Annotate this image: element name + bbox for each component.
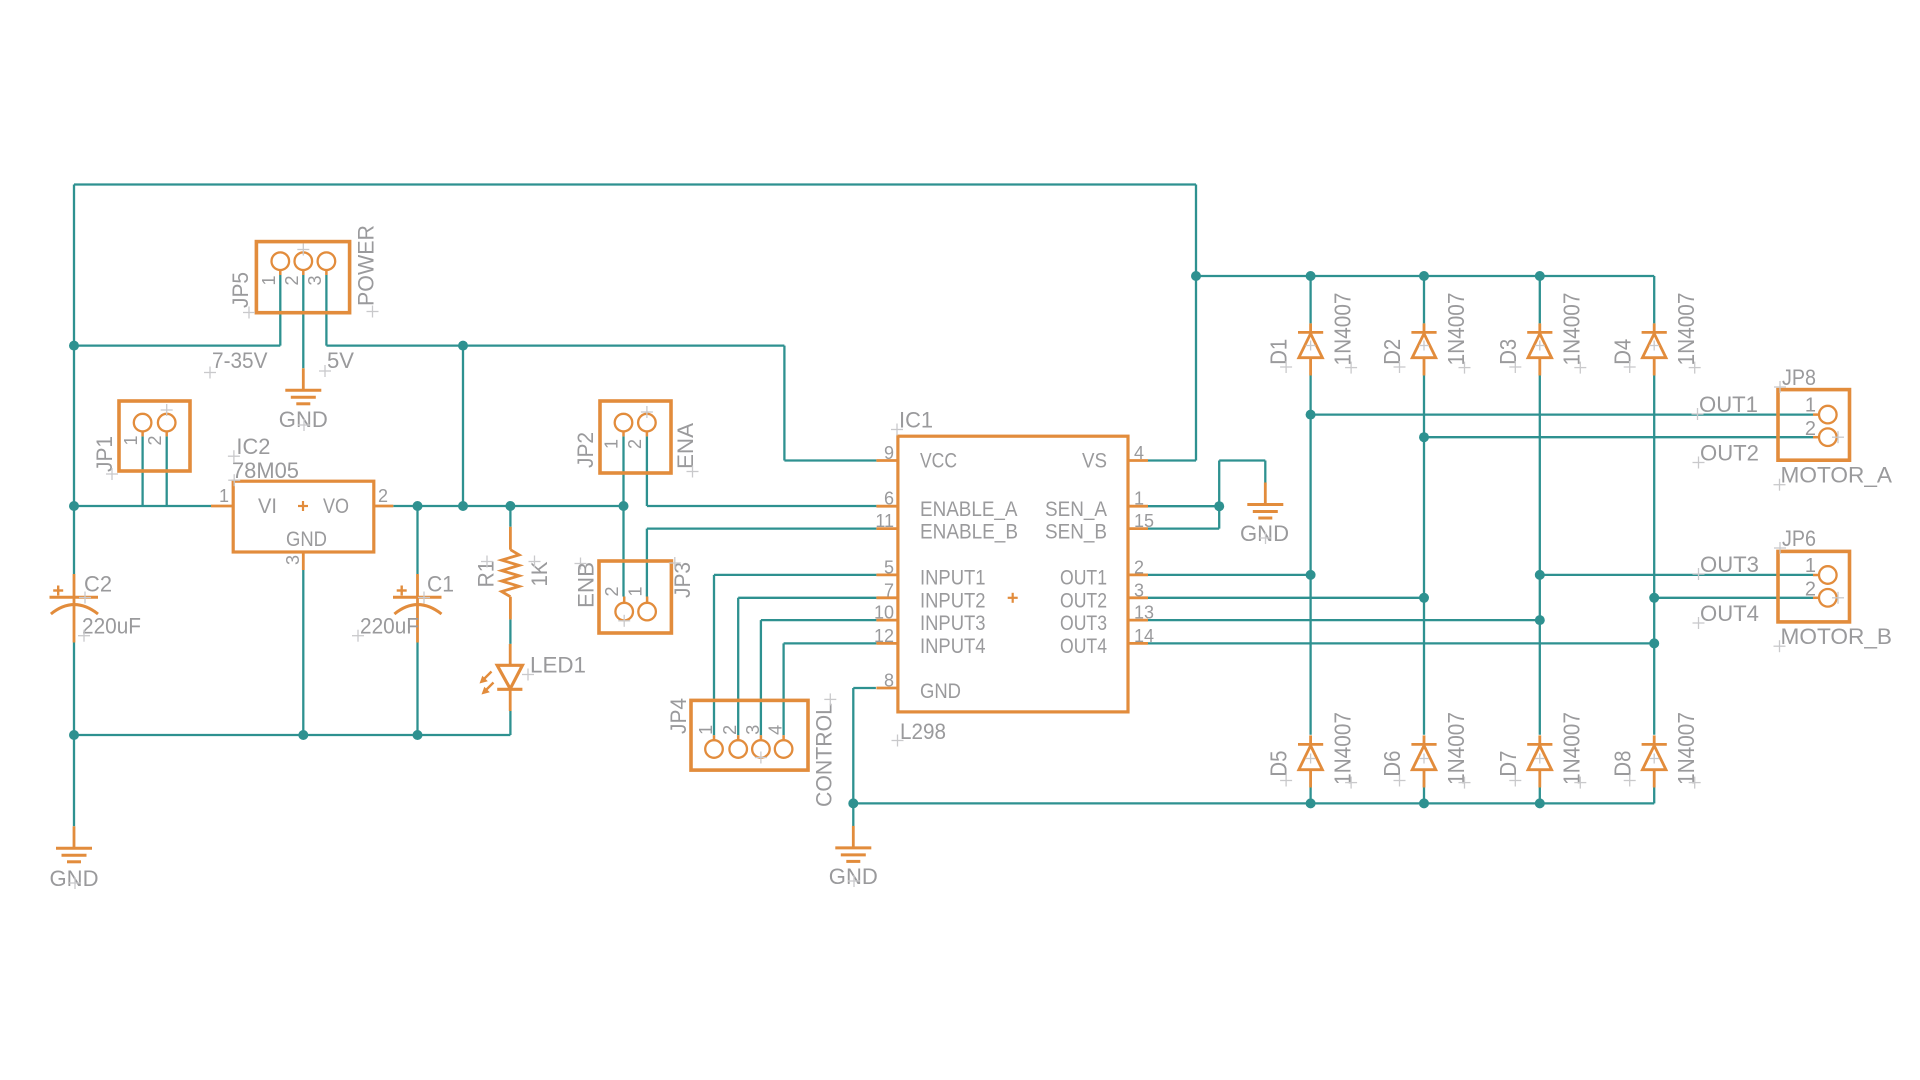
svg-text:1N4007: 1N4007 <box>1443 712 1469 785</box>
capacitor C2 <box>50 574 99 643</box>
IC2 pin 1 stub <box>211 505 233 508</box>
wire D8 riser bottom <box>1653 780 1655 803</box>
1K cross <box>529 556 541 568</box>
svg-text:1: 1 <box>1805 395 1816 417</box>
wire VCC drop <box>783 346 785 461</box>
svg-text:15: 15 <box>1134 511 1154 531</box>
wire JP4 pin2 rise <box>737 598 739 735</box>
svg-text:1: 1 <box>1134 489 1144 509</box>
svg-text:12: 12 <box>874 626 894 646</box>
svg-text:10: 10 <box>874 603 894 623</box>
label OUT2 <box>1700 441 1759 466</box>
svg-text:1: 1 <box>259 275 279 285</box>
svg-text:GND: GND <box>286 528 327 551</box>
wire SEN top row <box>1219 459 1265 461</box>
label ENB <box>574 562 599 608</box>
IC2 pin 2 stub <box>374 505 394 508</box>
1N4007 D4 cross <box>1689 362 1701 374</box>
wire OUT1 wire to JP8 <box>1311 413 1813 415</box>
IC2 pin number 1 <box>219 486 229 506</box>
label POWER <box>354 225 379 306</box>
D3 triangle cross <box>1535 341 1545 351</box>
wire VIN row to JP5 pin1 <box>74 344 280 346</box>
svg-text:C1: C1 <box>427 572 454 597</box>
diode D3 <box>1527 323 1552 375</box>
svg-text:GND: GND <box>1240 521 1289 546</box>
label D4 <box>1609 339 1635 365</box>
wire GND bottom bus <box>74 734 510 736</box>
D6 triangle cross <box>1419 754 1429 764</box>
GND control cross <box>848 875 860 887</box>
IC1 pin name INPUT1 <box>920 567 986 590</box>
diode D7 <box>1527 735 1552 787</box>
wire SEN GND drop <box>1264 461 1266 483</box>
wire JP1 pin2 drop <box>166 436 168 506</box>
D7 label cross <box>1509 775 1521 787</box>
diode D5 <box>1298 735 1323 787</box>
svg-text:8: 8 <box>884 671 894 691</box>
label D2 <box>1379 339 1405 365</box>
JP5 text cross <box>243 307 255 319</box>
wire OUT2 row from IC1 <box>1148 597 1424 599</box>
svg-text:OUT3: OUT3 <box>1700 552 1759 577</box>
svg-text:1N4007: 1N4007 <box>1443 293 1469 366</box>
svg-text:5: 5 <box>884 557 894 577</box>
svg-text:OUT4: OUT4 <box>1700 601 1759 626</box>
wire 5V row <box>326 344 784 346</box>
svg-text:1N4007: 1N4007 <box>1330 293 1356 366</box>
junction bottom bus / D6 <box>1419 798 1429 808</box>
D6 label cross <box>1394 775 1406 787</box>
junction bottom bus / IC2 GND <box>298 730 308 740</box>
svg-text:ENABLE_A: ENABLE_A <box>920 498 1018 521</box>
IC U1 L298 body <box>898 436 1128 712</box>
wire OUT1 row from IC1 <box>1148 574 1311 576</box>
GND sense cross <box>1260 532 1272 544</box>
IC1 pin name GND <box>920 680 961 703</box>
connector JP2 <box>600 401 671 473</box>
IC2 pin 3 stub <box>302 552 305 570</box>
svg-text:220uF: 220uF <box>360 614 419 639</box>
diode D1 <box>1298 323 1323 375</box>
svg-text:2: 2 <box>602 586 622 596</box>
OUT2 cross <box>1693 457 1705 469</box>
junction D1 riser / OUT1 <box>1306 410 1316 420</box>
wire D2 riser top <box>1423 276 1425 323</box>
diode D4 <box>1642 323 1667 375</box>
label L298 <box>900 719 946 744</box>
JP6 origin cross <box>1832 592 1844 604</box>
svg-text:OUT2: OUT2 <box>1700 441 1759 466</box>
JP1 pin number 1 <box>121 435 141 445</box>
ground GND (sense) <box>1247 483 1283 519</box>
wire D1-D5 riser mid <box>1309 376 1311 735</box>
svg-text:JP2: JP2 <box>573 432 598 468</box>
JP8 pin number 1 <box>1805 395 1816 417</box>
IC1 pin number 10 <box>874 603 894 623</box>
label C2 <box>84 572 112 597</box>
label JP1 <box>92 436 117 472</box>
7-35V origin cross <box>204 367 216 379</box>
svg-text:MOTOR_A: MOTOR_A <box>1781 462 1893 487</box>
svg-text:JP8: JP8 <box>1782 365 1816 390</box>
wire D6 riser bottom <box>1423 780 1425 803</box>
svg-text:1: 1 <box>1805 555 1816 577</box>
IC1 pin number 14 <box>1134 626 1154 646</box>
svg-text:2: 2 <box>1805 418 1816 440</box>
wire VCC row <box>784 459 876 461</box>
svg-text:D6: D6 <box>1379 751 1405 777</box>
label 220uF (C1) <box>360 614 419 639</box>
label JP2 <box>573 432 598 468</box>
IC1 pin number 1 <box>1134 489 1144 509</box>
wire D2-D6 riser mid <box>1423 376 1425 735</box>
JP2 origin cross <box>641 406 653 418</box>
JP8 origin cross <box>1832 431 1844 443</box>
svg-text:2: 2 <box>1134 557 1144 577</box>
svg-text:1: 1 <box>626 586 646 596</box>
label CONTROL <box>812 703 837 807</box>
svg-text:JP3: JP3 <box>670 562 695 598</box>
label JP4 <box>666 698 691 734</box>
label D6 <box>1379 751 1405 777</box>
junction bottom bus / D5 <box>1306 798 1316 808</box>
svg-text:INPUT1: INPUT1 <box>920 567 986 590</box>
1N4007 D8 cross <box>1689 777 1701 789</box>
svg-text:1: 1 <box>121 435 141 445</box>
label D1 <box>1266 339 1292 365</box>
JP8 cross <box>1774 381 1786 393</box>
JP4 pin number 2 <box>720 725 740 735</box>
svg-text:GND: GND <box>50 866 99 891</box>
wire OUT3 wire to JP6 <box>1540 574 1813 576</box>
CONTROL text cross <box>824 693 836 705</box>
JP1 origin cross <box>161 404 173 416</box>
label IC1 <box>899 408 933 433</box>
JP3 pin number 1 <box>626 586 646 596</box>
diode D8 <box>1642 735 1667 787</box>
IC1 pin number 5 <box>884 557 894 577</box>
wire INPUT3 row <box>761 619 877 621</box>
C1 cross <box>418 592 430 604</box>
svg-text:OUT1: OUT1 <box>1699 392 1758 417</box>
wire VO row <box>393 505 623 507</box>
voltage regulator IC2 body <box>233 481 374 552</box>
svg-text:2: 2 <box>282 275 302 285</box>
wire C1 riser lower <box>416 643 418 736</box>
D2 triangle cross <box>1419 341 1429 351</box>
JP5 pin number 3 <box>305 275 325 285</box>
svg-text:1N4007: 1N4007 <box>1330 712 1356 785</box>
wire VIN row to IC2 VI <box>74 505 211 507</box>
IC1 pin number 13 <box>1134 603 1154 623</box>
IC2 pin name GND <box>286 528 327 551</box>
capacitor C2 plus <box>53 586 63 596</box>
svg-text:JP5: JP5 <box>228 272 253 308</box>
junction D1 riser / OUT1 row <box>1306 570 1316 580</box>
IC1 pin number 11 <box>875 511 894 531</box>
wire OUT3 row from IC1 <box>1148 619 1540 621</box>
svg-text:JP6: JP6 <box>1782 526 1816 551</box>
LED LED1 <box>480 644 523 711</box>
IC2 label crosses <box>228 450 240 486</box>
junction D4 riser / OUT4 wire <box>1649 593 1659 603</box>
label MOTOR_B <box>1781 624 1893 649</box>
IC1 pin number 12 <box>874 626 894 646</box>
OUT3 cross <box>1693 568 1705 580</box>
IC1 pin name INPUT3 <box>920 612 986 635</box>
junction D2 riser / OUT2 row <box>1419 593 1429 603</box>
svg-text:3: 3 <box>743 725 763 735</box>
svg-text:LED1: LED1 <box>530 653 586 678</box>
svg-text:GND: GND <box>920 680 961 703</box>
D5 triangle cross <box>1306 754 1316 764</box>
svg-text:GND: GND <box>829 864 878 889</box>
junction VS riser / top bus <box>1191 271 1201 281</box>
junction left rail / VIN row <box>69 341 79 351</box>
junction VO row / JP2 pin1 <box>619 501 629 511</box>
svg-text:ENB: ENB <box>574 562 599 608</box>
220uF C2 cross <box>78 630 90 642</box>
junction 5V row / C1 riser <box>458 341 468 351</box>
wire ENABLE_B row <box>647 527 877 529</box>
svg-text:D4: D4 <box>1609 339 1635 365</box>
MOTOR_B cross <box>1774 640 1786 652</box>
svg-text:L298: L298 <box>900 719 946 744</box>
1N4007 D5 cross <box>1345 777 1357 789</box>
ENB text cross <box>575 558 587 570</box>
label 1N4007 (D8) <box>1673 712 1699 785</box>
wire IC1 GND row <box>853 687 876 689</box>
IC1 pin name ENABLE_B <box>920 520 1018 543</box>
svg-text:3: 3 <box>283 555 303 565</box>
wire R1 top link <box>509 506 511 527</box>
JP3 origin cross <box>618 557 681 627</box>
D8 triangle cross <box>1649 754 1659 764</box>
svg-text:GND: GND <box>279 407 328 432</box>
svg-text:INPUT2: INPUT2 <box>920 590 986 613</box>
svg-text:1N4007: 1N4007 <box>1673 712 1699 785</box>
wire IC1 GND drop <box>852 688 854 828</box>
IC1 pin number 8 <box>884 671 894 691</box>
wire ENABLE_A row <box>647 505 877 507</box>
svg-text:7: 7 <box>884 580 894 600</box>
svg-text:D1: D1 <box>1266 339 1292 365</box>
label GND (JP5) <box>279 407 328 432</box>
svg-text:D8: D8 <box>1609 751 1635 777</box>
label 5V <box>327 348 354 373</box>
MOTOR_A cross <box>1774 479 1786 491</box>
label R1 <box>474 561 499 588</box>
svg-text:D3: D3 <box>1495 339 1521 365</box>
wire diode top bus <box>1196 275 1654 277</box>
ground GND (left rail) <box>56 826 92 862</box>
wire VIN left rail upper <box>73 185 75 575</box>
junction top bus / D2 <box>1419 271 1429 281</box>
IC1 left pin stubs <box>876 461 898 689</box>
label GND (left) <box>50 866 99 891</box>
label 7-35V <box>212 348 268 373</box>
JP6 pin number 1 <box>1805 555 1816 577</box>
capacitor C1 plus <box>397 586 407 596</box>
connector JP6 <box>1778 551 1850 622</box>
JP5 pin number 2 <box>282 275 302 285</box>
label 1N4007 (D1) <box>1330 293 1356 366</box>
GND left cross <box>69 877 81 889</box>
diode D6 <box>1411 735 1436 787</box>
wire SEN riser <box>1218 461 1220 529</box>
IC1 pin name OUT2 <box>1060 590 1107 613</box>
IC1 pin name VCC <box>920 450 957 473</box>
wire JP4 pin1 rise <box>713 575 715 735</box>
svg-text:3: 3 <box>1134 580 1144 600</box>
label JP6 <box>1782 526 1816 551</box>
D2 label cross <box>1394 361 1406 373</box>
IC1 pin name INPUT4 <box>920 635 986 658</box>
wire JP5 pin3 drop (5V) <box>325 275 327 346</box>
C2 cross <box>79 592 91 604</box>
connector JP8 <box>1778 390 1850 461</box>
wire JP2-JP3 link <box>622 506 624 597</box>
IC1 pin number 3 <box>1134 580 1144 600</box>
svg-text:INPUT4: INPUT4 <box>920 635 986 658</box>
IC1 origin cross (orange) <box>1008 593 1018 603</box>
wire D3-D7 riser mid <box>1539 376 1541 735</box>
wire INPUT1 row <box>714 574 876 576</box>
svg-text:3: 3 <box>305 275 325 285</box>
wire VIN top bus <box>74 183 1196 185</box>
wire JP5 pin1 drop <box>279 270 281 346</box>
junction left rail / bottom bus <box>69 730 79 740</box>
JP1 pin number 2 <box>145 435 165 445</box>
wire SEN_A row <box>1148 505 1219 507</box>
220uF C1 cross <box>352 630 364 642</box>
label 1K <box>527 561 552 586</box>
wire left rail lower <box>73 643 75 827</box>
svg-text:5V: 5V <box>327 348 354 373</box>
IC1 pin name ENABLE_A <box>920 498 1018 521</box>
connector JP5 <box>256 242 349 313</box>
svg-text:1: 1 <box>602 439 622 449</box>
IC1 pin name OUT3 <box>1060 612 1107 635</box>
svg-text:1: 1 <box>696 725 716 735</box>
label 1N4007 (D2) <box>1443 293 1469 366</box>
svg-text:1: 1 <box>219 486 229 506</box>
POWER text cross <box>367 306 379 318</box>
wire D3 riser top <box>1539 276 1541 323</box>
diode D2 <box>1411 323 1436 375</box>
IC2 pin name VO <box>323 495 349 518</box>
label GND (sense) <box>1240 521 1289 546</box>
IC1 pin number 4 <box>1134 443 1144 463</box>
svg-text:D7: D7 <box>1495 751 1521 777</box>
connector JP1 <box>119 401 190 471</box>
svg-text:D5: D5 <box>1266 751 1292 777</box>
wire JP4 pin3 rise <box>760 620 762 735</box>
ENA text cross <box>687 466 699 478</box>
wire D4 riser top <box>1653 276 1655 323</box>
junction top bus / D1 <box>1306 271 1316 281</box>
svg-text:C2: C2 <box>84 572 112 597</box>
svg-text:IC2: IC2 <box>236 434 270 459</box>
svg-text:6: 6 <box>884 489 894 509</box>
5V origin cross <box>319 365 331 377</box>
wire C1 riser upper <box>416 506 418 574</box>
label D5 <box>1266 751 1292 777</box>
label 1N4007 (D3) <box>1559 293 1585 366</box>
svg-text:ENA: ENA <box>673 423 698 469</box>
IC1 cross <box>891 424 903 436</box>
svg-text:MOTOR_B: MOTOR_B <box>1781 624 1893 649</box>
D8 label cross <box>1624 775 1636 787</box>
GND JP5 text cross <box>298 419 310 431</box>
svg-text:SEN_B: SEN_B <box>1045 520 1107 543</box>
IC1 pin name OUT4 <box>1060 635 1107 658</box>
IC1 right pin stubs <box>1128 461 1148 644</box>
OUT4 cross <box>1693 617 1705 629</box>
svg-text:OUT2: OUT2 <box>1060 590 1107 613</box>
svg-text:1N4007: 1N4007 <box>1559 293 1585 366</box>
JP8 pin number 2 <box>1805 418 1816 440</box>
svg-text:11: 11 <box>875 511 894 531</box>
junction bottom bus / C1 <box>413 730 423 740</box>
svg-text:9: 9 <box>884 443 894 463</box>
JP4 pin number 3 <box>743 725 763 735</box>
label ENA <box>673 423 698 469</box>
connector JP3 <box>599 561 671 633</box>
junction D3 riser / OUT3 row <box>1535 615 1545 625</box>
svg-text:2: 2 <box>720 725 740 735</box>
JP1 text cross <box>106 468 118 480</box>
wire OUT4 row from IC1 <box>1148 642 1654 644</box>
wire D1 riser top <box>1309 276 1311 323</box>
wire JP4 pin4 rise <box>782 643 784 735</box>
L298 cross <box>892 735 904 747</box>
IC1 pin name VS <box>1082 450 1107 473</box>
IC2 pin name VI <box>258 495 277 518</box>
svg-text:4: 4 <box>1134 443 1144 463</box>
label D3 <box>1495 339 1521 365</box>
junction SEN_A / SEN riser <box>1214 501 1224 511</box>
wire diode bottom bus <box>853 802 1654 804</box>
wire 5V riser to VO row <box>462 346 464 506</box>
LED1 cross <box>522 669 534 681</box>
svg-text:IC1: IC1 <box>899 408 933 433</box>
wire R1-LED1 link <box>509 619 511 644</box>
wire INPUT4 row <box>784 642 877 644</box>
label D7 <box>1495 751 1521 777</box>
wire D4-D8 riser mid <box>1653 376 1655 735</box>
IC1 pin number 7 <box>884 580 894 600</box>
IC1 pin number 15 <box>1134 511 1154 531</box>
svg-text:2: 2 <box>625 439 645 449</box>
wire VS hook <box>1148 459 1196 461</box>
wire JP3 pin1 rise <box>646 529 648 597</box>
wire D7 riser bottom <box>1539 780 1541 803</box>
IC2 origin cross (orange) <box>298 501 308 511</box>
label JP5 <box>228 272 253 308</box>
JP4 pin number 1 <box>696 725 716 735</box>
svg-text:VO: VO <box>323 495 349 518</box>
label OUT4 <box>1700 601 1759 626</box>
label LED1 <box>530 653 586 678</box>
junction D4 riser / OUT4 row <box>1649 638 1659 648</box>
svg-text:CONTROL: CONTROL <box>812 703 837 807</box>
svg-text:ENABLE_B: ENABLE_B <box>920 520 1018 543</box>
1N4007 D7 cross <box>1574 777 1586 789</box>
wire D5 riser bottom <box>1309 780 1311 803</box>
svg-text:INPUT3: INPUT3 <box>920 612 986 635</box>
